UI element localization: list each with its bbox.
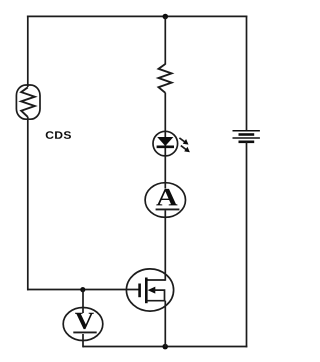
light arrow 1 — [179, 138, 188, 145]
MOSFET Q1 — [126, 269, 173, 311]
wire source to bottom rail — [164, 301, 166, 347]
resistor R1 — [159, 64, 172, 93]
wire voltmeter stem — [82, 290, 84, 314]
wire right branch lower — [246, 142, 248, 348]
node top junction — [163, 14, 169, 20]
wire bottom rail — [83, 346, 247, 348]
battery B1 — [233, 131, 260, 142]
LED D1 — [153, 131, 190, 156]
body lead — [154, 290, 165, 301]
wire top rail — [27, 15, 247, 17]
node gate-voltmeter junction — [80, 287, 85, 292]
channel bar — [145, 278, 148, 304]
source lead — [146, 300, 165, 302]
wire left branch lower — [27, 117, 29, 291]
drain lead — [146, 279, 165, 281]
wire left branch upper — [27, 16, 29, 87]
wire right branch upper — [246, 16, 248, 131]
label CDS — [46, 131, 71, 139]
wire middle upper — [164, 17, 166, 65]
wire voltmeter to bottom rail — [83, 334, 84, 347]
light arrow 2 — [181, 146, 190, 153]
gate bar — [138, 284, 141, 298]
wire gate lead — [27, 289, 139, 291]
body arrow — [148, 287, 156, 294]
node bottom junction — [162, 344, 168, 350]
photoresistor CDS — [16, 85, 40, 119]
wire resistor to LED to ammeter — [164, 93, 166, 189]
voltmeter V1 — [63, 308, 103, 341]
ammeter A1 — [145, 183, 185, 218]
wire drain — [164, 210, 166, 280]
